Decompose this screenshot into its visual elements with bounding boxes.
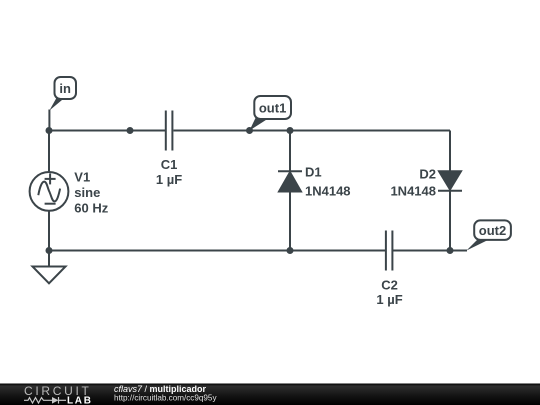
capacitor C2	[386, 231, 393, 271]
junction node D1 top	[287, 127, 294, 134]
label V1 value	[74, 170, 108, 216]
svg-text:1 µF: 1 µF	[376, 292, 402, 307]
svg-text:D2: D2	[419, 167, 436, 182]
svg-text:D1: D1	[305, 165, 322, 180]
svg-text:in: in	[59, 81, 71, 96]
svg-text:out2: out2	[479, 223, 506, 238]
junction node at in/V1 top	[46, 127, 53, 134]
svg-text:http://circuitlab.com/cc9q95y: http://circuitlab.com/cc9q95y	[114, 394, 217, 403]
svg-text:1 µF: 1 µF	[156, 172, 182, 187]
capacitor C1	[166, 111, 173, 151]
wire right vertical upper (corner to D2 anode)	[449, 131, 451, 172]
svg-text:sine: sine	[74, 185, 100, 200]
wire V1 bottom lead	[48, 212, 50, 251]
wire right vertical lower (D2 cathode to bottom rail)	[449, 191, 451, 251]
ground	[33, 267, 66, 284]
svg-text:C2: C2	[381, 278, 398, 293]
voltage source V1	[30, 172, 69, 211]
wire top rail right (C1 to right corner)	[174, 130, 451, 132]
node flag out2	[467, 220, 511, 250]
wire bottom rail left (ground node to C2)	[49, 250, 385, 252]
node flag out1	[250, 96, 292, 131]
diode D1	[278, 171, 302, 191]
wire top rail left (node in to C1)	[49, 130, 165, 132]
svg-text:1N4148: 1N4148	[390, 184, 436, 199]
svg-text:out1: out1	[259, 101, 286, 116]
junction node out1	[246, 127, 253, 134]
wire in-flag lead	[48, 110, 50, 131]
CircuitLab logo resistor-diode glyph	[24, 397, 66, 404]
label D2 value	[390, 167, 436, 199]
node flag in	[49, 77, 76, 111]
svg-text:1N4148: 1N4148	[305, 184, 351, 199]
label D1 value	[305, 165, 351, 199]
junction node ground/V1 bottom	[46, 247, 53, 254]
svg-text:60 Hz: 60 Hz	[74, 200, 108, 215]
junction node mid top rail	[127, 127, 134, 134]
label C1 value	[156, 157, 182, 187]
svg-text:V1: V1	[74, 170, 90, 185]
wire bottom rail right (C2 to out2 stub)	[393, 250, 467, 252]
svg-text:cflavs7 / multiplicador: cflavs7 / multiplicador	[114, 384, 207, 394]
diode D2	[438, 171, 462, 191]
junction node D1 bottom	[287, 247, 294, 254]
wire D1 bottom lead (anode to bottom rail)	[289, 192, 291, 251]
wire V1 top lead	[48, 131, 50, 172]
svg-text:C1: C1	[161, 157, 178, 172]
label C2 value	[376, 278, 402, 308]
wire D1 top lead (out1 to cathode)	[289, 131, 291, 172]
svg-text:LAB: LAB	[67, 395, 93, 405]
wire ground lead	[48, 251, 50, 267]
junction node D2 bottom	[447, 247, 454, 254]
